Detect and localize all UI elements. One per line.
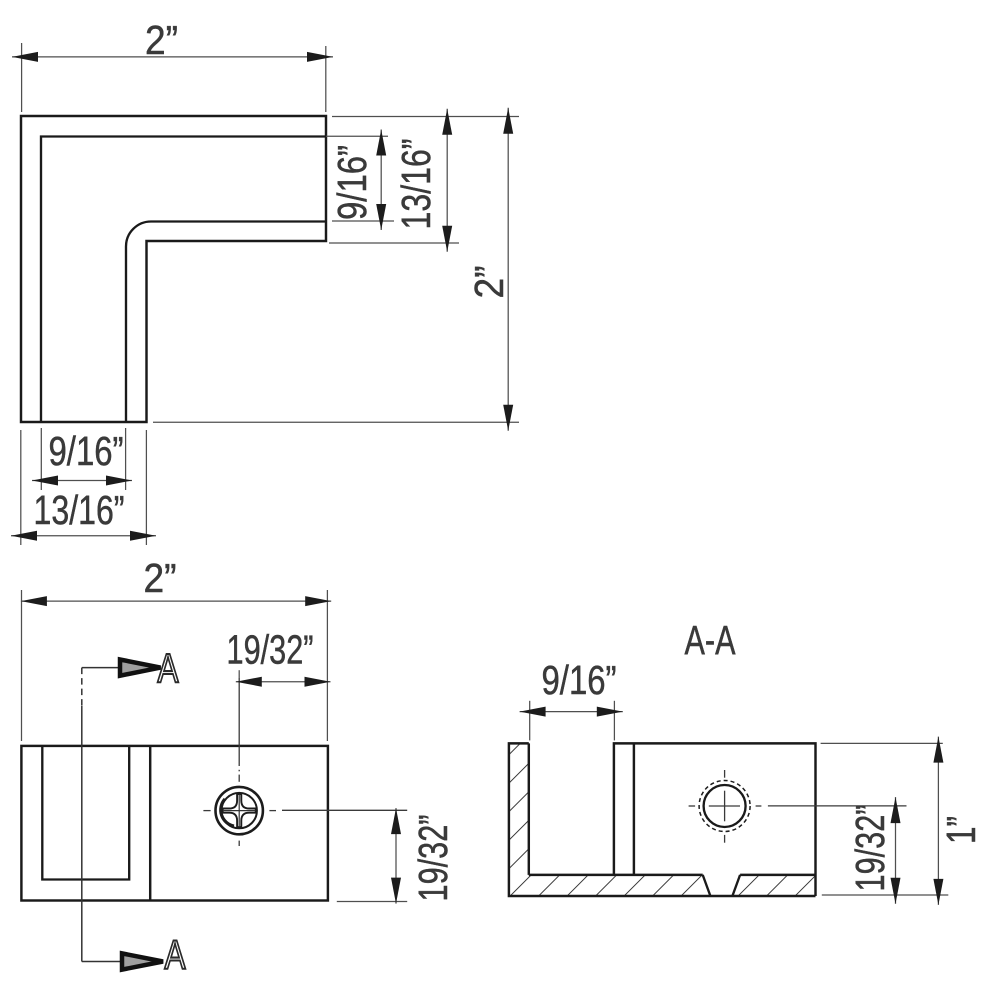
svg-text:2”: 2” bbox=[145, 17, 178, 63]
block inner edge bbox=[633, 743, 635, 875]
svg-text:13/16”: 13/16” bbox=[34, 487, 125, 533]
dimension 9/16 bottom : right arrowhead bbox=[106, 476, 132, 486]
dimension 2 inch top : right arrowhead bbox=[307, 52, 333, 62]
dimension 1 inch view3 : up arrowhead bbox=[933, 737, 943, 763]
dimension 2 inch right : dimension line bbox=[507, 108, 509, 431]
dimension 2 inch right : up arrowhead bbox=[503, 108, 513, 134]
screw head outer circle bbox=[216, 787, 263, 834]
dimension 2 inch view2 : right arrowhead bbox=[305, 596, 331, 606]
dimension 2 inch view2 : extension lines bbox=[21, 590, 23, 741]
dimension 13/16 bottom : left arrowhead bbox=[11, 531, 37, 541]
dimension 9/16 view3 : dimension line bbox=[520, 711, 623, 713]
dimension 19/32 view2 top : dimension line bbox=[236, 681, 331, 683]
extension line bottom arm-face bbox=[145, 430, 147, 545]
dimension 9/16 right : up arrowhead bbox=[376, 130, 386, 156]
dimension 19/32 view2 right : dimension line bbox=[395, 808, 397, 904]
dimension 2 inch top : extension lines bbox=[21, 43, 23, 112]
dimension 9/16 bottom : dimension line bbox=[32, 480, 132, 482]
svg-text:2”: 2” bbox=[144, 555, 177, 601]
section marker bottom : leader bbox=[82, 961, 122, 963]
hole vertical centerline bbox=[724, 770, 726, 778]
strip top edge right of notch bbox=[740, 874, 815, 876]
extension line slot bottom bbox=[332, 220, 394, 222]
dimension 9/16 view3 : right arrowhead bbox=[597, 707, 623, 717]
section line A-A bbox=[81, 668, 83, 706]
dimension 19/32 view2 top : left arrowhead bbox=[236, 677, 262, 687]
svg-text:A: A bbox=[158, 645, 179, 691]
svg-text:2”: 2” bbox=[466, 266, 512, 299]
extension line bottom slot-left bbox=[40, 428, 42, 490]
glass slot outer wall line bbox=[41, 137, 326, 423]
dimension 2 inch top : dimension line bbox=[12, 56, 333, 58]
extension line slot top bbox=[326, 135, 388, 137]
dimension 19/32 view2 top : right arrowhead bbox=[305, 677, 331, 687]
dimension 13/16 right : up arrowhead bbox=[442, 109, 452, 135]
left wall and bottom outline bbox=[509, 743, 816, 896]
screw horizontal centerline bbox=[203, 810, 210, 812]
hole horizontal centerline bbox=[689, 805, 696, 807]
section marker bottom : arrow bbox=[122, 953, 163, 969]
dimension 9/16 view3 : left arrowhead bbox=[520, 707, 546, 717]
svg-text:13/16”: 13/16” bbox=[393, 139, 439, 230]
dimension 9/16 view3 : extension lines bbox=[529, 701, 531, 741]
glass slot inner wall line with fillet bbox=[126, 221, 326, 422]
slot bottom and strip top edge left of notch bbox=[529, 874, 703, 876]
dimension 13/16 bottom : right arrowhead bbox=[130, 531, 156, 541]
dimension 13/16 right : dimension line bbox=[446, 109, 448, 252]
hatched cut region bbox=[509, 743, 816, 896]
left wall inner edge bbox=[528, 743, 530, 875]
svg-text:9/16”: 9/16” bbox=[49, 428, 124, 474]
extension line arm bottom bbox=[329, 242, 459, 244]
svg-text:A: A bbox=[165, 932, 186, 978]
extension line bottom far-left bbox=[20, 430, 22, 545]
dimension 19/32 view3 : up arrowhead bbox=[891, 797, 901, 823]
dimension 9/16 right : dimension line bbox=[380, 130, 382, 231]
section marker top : arrow bbox=[120, 660, 161, 676]
notch left slant bbox=[703, 875, 711, 896]
block outline bbox=[614, 743, 816, 896]
dimension 19/32 view2 right : up arrowhead bbox=[391, 808, 401, 834]
front view outline bbox=[21, 746, 328, 901]
dimension 2 inch view2 : left arrowhead bbox=[21, 596, 47, 606]
svg-text:19/32”: 19/32” bbox=[847, 805, 893, 892]
hole thread dashed circle bbox=[699, 781, 750, 832]
svg-text:9/16”: 9/16” bbox=[329, 145, 375, 220]
phillips recess center lines bbox=[223, 810, 255, 812]
dimension 13/16 right : down arrowhead bbox=[442, 226, 452, 252]
dimension 2 inch top : left arrowhead bbox=[12, 52, 38, 62]
extension line bottom slot-right bbox=[125, 428, 127, 490]
extension line part bottom bbox=[153, 421, 519, 423]
dimension 19/32 view3 : bottom extension bbox=[822, 894, 949, 896]
svg-text:A-A: A-A bbox=[685, 617, 736, 663]
svg-text:1”: 1” bbox=[938, 816, 984, 844]
dimension 9/16 right : down arrowhead bbox=[376, 204, 386, 230]
svg-text:19/32”: 19/32” bbox=[227, 627, 314, 673]
notch right slant bbox=[732, 875, 740, 896]
dimension 19/32 view2 right : down arrowhead bbox=[391, 878, 401, 904]
slot U contour bbox=[42, 746, 129, 880]
dimension 19/32 view2 right : bottom extension bbox=[337, 901, 407, 903]
screw head shadow crescent bbox=[221, 799, 234, 826]
dimension 19/32 view2 top : centerline extension bbox=[238, 670, 240, 677]
dimension 19/32 view3 : down arrowhead bbox=[891, 878, 901, 904]
svg-text:9/16”: 9/16” bbox=[542, 657, 617, 703]
screw head inner circle bbox=[222, 793, 257, 828]
hole solid circle bbox=[704, 785, 746, 827]
outer profile of L-bracket bbox=[21, 116, 326, 422]
section marker top : leader bbox=[82, 667, 120, 669]
phillips recess outline bbox=[223, 794, 256, 827]
extension line right top bbox=[332, 116, 519, 118]
arm face edge bbox=[149, 746, 151, 901]
dimension 13/16 bottom : dimension line bbox=[11, 535, 156, 537]
svg-text:19/32”: 19/32” bbox=[410, 815, 456, 902]
dimension 1 inch view3 : dimension line bbox=[937, 737, 939, 905]
dimension 19/32 view3 : dimension line bbox=[895, 797, 897, 904]
dimension 2 inch right : down arrowhead bbox=[503, 405, 513, 431]
dimension 1 inch view3 : down arrowhead bbox=[933, 879, 943, 905]
dimension 2 inch view2 : dimension line bbox=[21, 600, 331, 602]
dimension 9/16 bottom : left arrowhead bbox=[32, 476, 58, 486]
screw vertical centerline bbox=[238, 678, 240, 766]
hole centerline extension right bbox=[768, 805, 907, 807]
dimension 1 inch view3 : top extension bbox=[821, 742, 943, 744]
